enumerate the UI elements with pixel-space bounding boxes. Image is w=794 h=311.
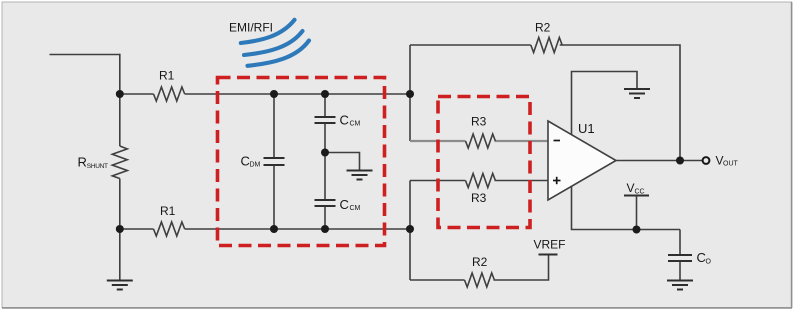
svg-text:C: C (340, 112, 349, 127)
ground (filter mid) (347, 171, 373, 180)
resistor R1 (bottom) (154, 204, 185, 236)
wire feedback to output column (560, 45, 680, 161)
svg-text:CC: CC (635, 189, 645, 196)
EMI/RFI wave arc 2 (244, 31, 303, 55)
wire RSHUNT to ground (119, 179, 121, 281)
svg-text:C: C (697, 250, 706, 265)
op-amp U1 (548, 121, 616, 200)
node CCM top (321, 90, 329, 98)
svg-text:C: C (241, 153, 250, 168)
svg-text:R2: R2 (472, 255, 488, 269)
wire bottom R2 rail (410, 279, 465, 281)
svg-text:R1: R1 (159, 69, 175, 83)
resistor R2 (bottom) (465, 255, 495, 287)
wire output (616, 160, 702, 162)
node feedback junction (406, 90, 414, 98)
svg-text:SHUNT: SHUNT (87, 163, 108, 170)
wire mid node to ground (325, 153, 360, 171)
svg-text:O: O (706, 259, 712, 266)
EMI/RFI wave arc 3 (248, 41, 310, 66)
wire node column plus branch (409, 181, 411, 281)
EMI/RFI wave arc 1 (241, 20, 295, 43)
svg-text:R3: R3 (471, 191, 487, 205)
resistor R3 (top) (466, 115, 496, 149)
svg-text:VREF: VREF (534, 237, 566, 251)
wire non-inverting input (410, 180, 466, 182)
svg-text:CM: CM (350, 205, 361, 212)
node plus-branch junction (406, 225, 414, 233)
wire top row R1 to node (185, 93, 410, 95)
svg-text:CM: CM (350, 120, 361, 127)
svg-text:R2: R2 (535, 21, 551, 35)
Vout terminal (703, 154, 739, 168)
wire left vertical (input column) (119, 54, 121, 146)
wire op-amp bottom pin to Vcc rail (572, 186, 681, 230)
ground (op-amp top) (624, 89, 650, 98)
red dashed box (common-mode filter) (218, 78, 385, 246)
svg-text:U1: U1 (578, 121, 595, 136)
svg-text:R3: R3 (471, 115, 487, 129)
wire bottom row R1 to node (185, 228, 410, 230)
svg-text:R1: R1 (160, 204, 176, 218)
resistor R2 (feedback) (531, 21, 562, 53)
resistor RSHUNT (78, 146, 128, 179)
capacitor CCM (bottom) (315, 153, 361, 230)
node output junction (676, 157, 684, 165)
wire inverting input (gray) (410, 140, 466, 142)
capacitor CO (668, 230, 712, 281)
Vcc terminal (624, 181, 649, 230)
node CDM bottom (270, 225, 278, 233)
node top-left junction (116, 90, 124, 98)
svg-text:EMI/RFI: EMI/RFI (229, 20, 273, 34)
node CCM bottom (321, 225, 329, 233)
red dashed box (R3 pair) (438, 97, 530, 228)
node CDM top (270, 90, 278, 98)
node CCM mid (321, 149, 329, 157)
capacitor CCM (top) (315, 94, 361, 153)
ground (output cap) (667, 281, 693, 290)
wire R2 to VREF (494, 255, 549, 281)
resistor R1 (top) (154, 69, 185, 102)
VREF terminal (534, 237, 566, 254)
wire top row left of R1 (120, 93, 154, 95)
wire bottom row left of R1 (120, 228, 154, 230)
node bottom-left junction (116, 225, 124, 233)
capacitor CDM (241, 94, 285, 229)
wire top-left stub (50, 54, 120, 56)
resistor R3 (bottom) (466, 174, 496, 206)
svg-text:C: C (340, 197, 349, 212)
svg-text:OUT: OUT (723, 160, 739, 167)
svg-text:V: V (627, 181, 635, 195)
wire op-amp top pin to ground (572, 72, 638, 135)
wire node column minus branch (409, 45, 411, 141)
node Vcc junction (633, 226, 641, 234)
wire feedback top rail (410, 44, 531, 46)
svg-text:R: R (78, 155, 87, 170)
svg-text:DM: DM (250, 162, 261, 169)
ground (left) (107, 281, 133, 290)
